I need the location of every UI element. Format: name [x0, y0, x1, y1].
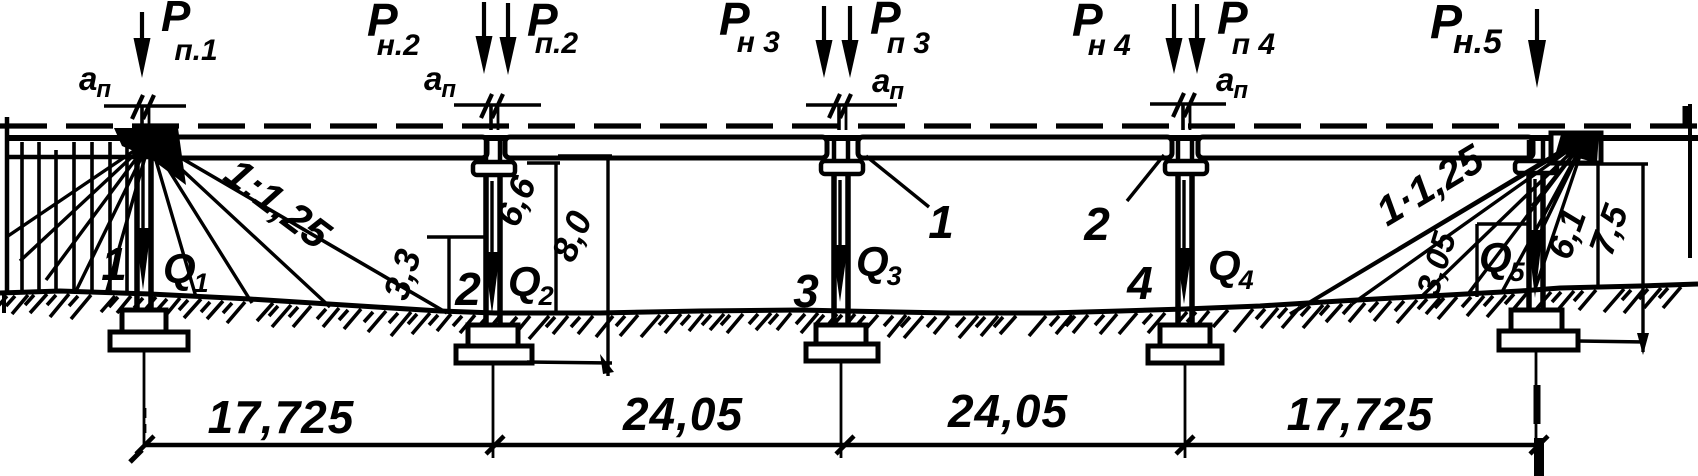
bottom dimension line	[143, 443, 1542, 448]
dimension 8,0 bottom link	[527, 362, 612, 363]
svg-text:6,6: 6,6	[487, 169, 545, 232]
right edge witness line	[1688, 104, 1692, 258]
left abutment fan blob	[114, 128, 186, 185]
dimension tick	[1530, 436, 1548, 454]
svg-text:3,3: 3,3	[375, 244, 429, 304]
svg-text:Q4: Q4	[1208, 242, 1254, 295]
svg-text:aп: aп	[1216, 61, 1248, 104]
pier 1 centre line	[143, 350, 146, 446]
pier 2 cap	[473, 162, 515, 175]
pier 4 bearing lines	[1176, 140, 1181, 161]
girder span 2	[505, 137, 827, 158]
svg-text:2: 2	[1083, 198, 1110, 250]
deck top dashed line	[0, 123, 1698, 128]
pier 2 bearing lines	[484, 140, 489, 162]
dimension 6,6 line	[554, 162, 557, 314]
girder span 4	[1198, 137, 1533, 158]
callout leader 1	[866, 156, 929, 207]
svg-text:17,725: 17,725	[208, 391, 355, 443]
pier 3 shaft	[831, 174, 837, 326]
right slope line 1:1.25	[1290, 136, 1586, 314]
svg-text:Q5: Q5	[1479, 234, 1526, 287]
dimension tick extra at pier 1	[130, 450, 142, 462]
dimension 7,5 bottom link	[1578, 341, 1646, 342]
callout leader 2	[1127, 155, 1164, 201]
pier 5 heavy witness line	[1534, 385, 1541, 424]
svg-text:1: 1	[101, 238, 127, 290]
pier 5 footing upper	[1511, 310, 1562, 331]
pier 2 centre line	[492, 363, 495, 458]
pier 3 footing upper	[816, 325, 866, 344]
load arrow pair at pier 4	[1172, 4, 1176, 42]
deck bottom line over left abutment	[7, 155, 165, 160]
pier 4 shaft	[1175, 174, 1181, 326]
pier 1 footing lower	[110, 332, 188, 350]
load arrow P_н.5	[1535, 9, 1539, 44]
svg-text:8,0: 8,0	[543, 205, 600, 267]
dimension 3,3 bracket	[447, 238, 450, 314]
load arrow pair at pier 3	[822, 6, 826, 44]
ground line	[0, 284, 1698, 313]
left abutment face line	[5, 117, 10, 291]
girder span 1	[157, 137, 487, 158]
witness line pier 1	[144, 408, 147, 433]
girder span 3	[858, 137, 1172, 158]
pier 4 cap	[1165, 161, 1207, 174]
a_п gauge marker	[104, 104, 186, 107]
load arrow P_п.1	[140, 12, 144, 42]
svg-text:Pн.2: Pн.2	[367, 0, 420, 62]
pier 1 footing upper	[122, 310, 166, 332]
svg-text:1: 1	[928, 196, 954, 248]
pier 1 shaft	[134, 140, 140, 312]
svg-text:24,05: 24,05	[947, 385, 1069, 437]
svg-text:aп: aп	[424, 60, 456, 103]
svg-text:Pн.5: Pн.5	[1430, 0, 1503, 61]
svg-text:Pн 3: Pн 3	[719, 0, 780, 59]
left abutment fan lines	[8, 140, 330, 307]
svg-text:Pп 3: Pп 3	[870, 0, 930, 60]
dimension 3,05 bracket	[1475, 224, 1478, 297]
svg-text:1:1,25: 1:1,25	[216, 149, 340, 259]
pier 5 cap	[1515, 161, 1557, 173]
pier 3 footing lower	[806, 344, 878, 361]
dimension 8,0 line	[606, 156, 609, 376]
svg-text:4: 4	[1126, 257, 1153, 309]
svg-text:17,725: 17,725	[1287, 388, 1434, 440]
pier 2 footing upper	[468, 325, 518, 346]
svg-text:Pп.1: Pп.1	[161, 0, 218, 67]
pier 4 footing upper	[1160, 325, 1210, 346]
a_п gauge marker	[454, 103, 541, 106]
dimension 6,1 line	[1596, 164, 1599, 286]
right abutment fan lines	[1294, 138, 1586, 312]
pier 3 bearing lines	[832, 140, 837, 161]
svg-text:Pп.2: Pп.2	[527, 0, 578, 60]
pier 3 centre line	[840, 361, 843, 458]
pier 1 load arrow Q1	[141, 146, 144, 234]
pier 3 cap	[821, 161, 863, 174]
svg-text:24,05: 24,05	[622, 388, 744, 440]
pier 4 footing lower	[1148, 346, 1222, 363]
dimension tick	[486, 436, 504, 454]
ground hatching	[0, 287, 1681, 339]
svg-text:Q3: Q3	[856, 238, 902, 291]
right abutment back wall	[1551, 133, 1601, 163]
dimension tick	[136, 436, 154, 454]
deck slab line	[5, 135, 1698, 141]
load arrow pair at pier 2	[482, 2, 486, 40]
dimension tick	[1176, 436, 1194, 454]
left slope line 1:1.25	[152, 141, 447, 313]
svg-text:aп: aп	[872, 62, 904, 105]
svg-text:Q1: Q1	[163, 245, 209, 298]
pier 5 shaft	[1526, 173, 1532, 311]
pier 4 centre line	[1184, 363, 1187, 458]
svg-text:Q2: Q2	[508, 258, 554, 311]
right dims top tick	[1558, 162, 1648, 165]
pier 4 load arrow Q4	[1182, 180, 1185, 254]
pier 5 centre line	[1535, 350, 1538, 476]
pier 2 footing lower	[456, 346, 532, 363]
svg-text:Pп 4: Pп 4	[1217, 0, 1275, 61]
embankment hatch lines	[22, 142, 127, 291]
a_п gauge marker	[806, 103, 897, 106]
svg-text:Pн 4: Pн 4	[1072, 0, 1131, 62]
pier 2 load arrow Q2	[490, 181, 493, 258]
pier 5 footing lower	[1499, 331, 1578, 350]
pier 5 load arrow Q5	[1533, 179, 1536, 236]
svg-text:7,5: 7,5	[1580, 198, 1636, 260]
svg-text:2: 2	[454, 263, 481, 315]
svg-text:aп: aп	[79, 60, 111, 103]
a_п gauge marker	[1150, 102, 1226, 105]
pier 5 bearing lines	[1527, 140, 1532, 161]
right abutment fan blob	[1556, 131, 1599, 163]
pier 3 load arrow Q3	[838, 180, 841, 251]
svg-text:3: 3	[793, 265, 819, 317]
dimension tick	[836, 436, 854, 454]
dimension 7,5 line	[1641, 164, 1644, 352]
pier 2 shaft	[483, 175, 489, 326]
